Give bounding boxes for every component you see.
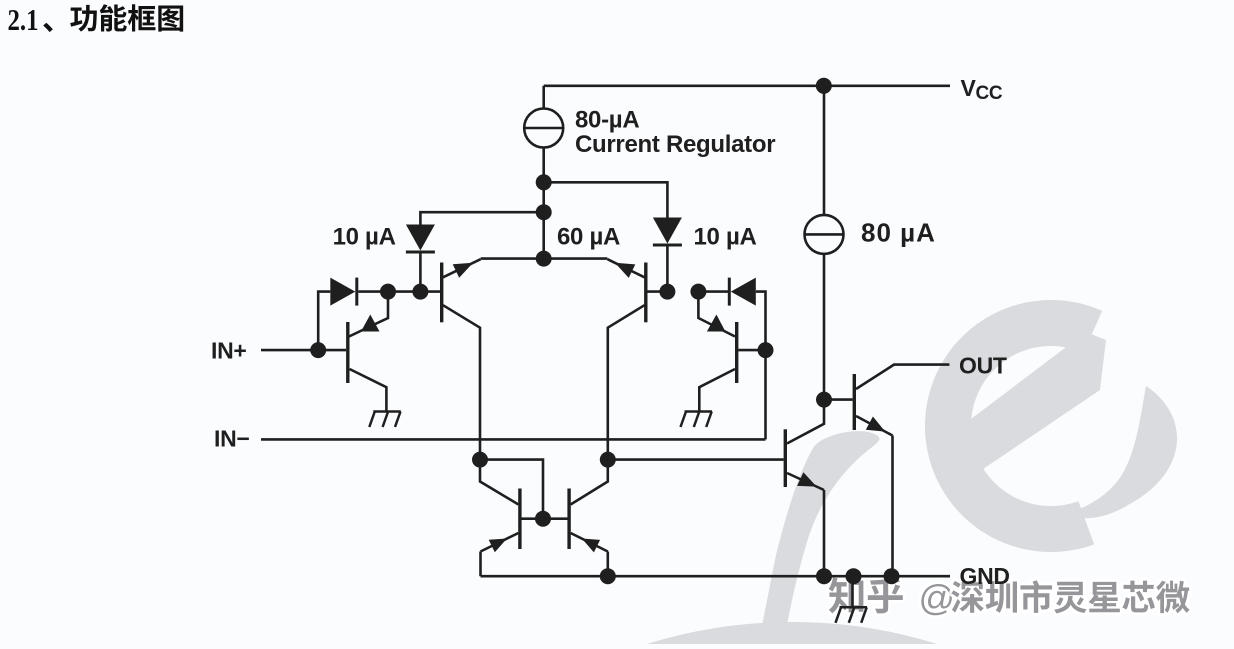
svg-text:60 µA: 60 µA [557, 224, 620, 251]
svg-text:GND: GND [960, 563, 1010, 589]
svg-text:OUT: OUT [959, 353, 1007, 379]
svg-text:IN−: IN− [214, 426, 250, 452]
svg-text:80 µA: 80 µA [861, 218, 936, 248]
svg-text:80-µA: 80-µA [575, 107, 639, 134]
svg-text:CC: CC [976, 83, 1003, 104]
svg-text:V: V [961, 75, 977, 101]
svg-text:2.1: 2.1 [8, 3, 39, 37]
svg-text:10 µA: 10 µA [694, 224, 757, 251]
svg-text:Current Regulator: Current Regulator [575, 131, 775, 158]
svg-text:@: @ [919, 577, 956, 618]
svg-text:10 µA: 10 µA [333, 224, 396, 251]
svg-text:IN+: IN+ [211, 338, 247, 364]
